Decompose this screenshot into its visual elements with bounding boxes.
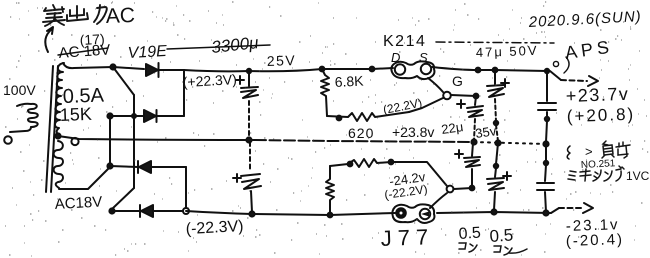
svg-text:AC18V: AC18V <box>54 194 102 213</box>
transistor Q2 J77 package <box>392 193 447 223</box>
node: row3 left junction <box>107 163 112 168</box>
svg-text:G: G <box>452 73 463 89</box>
svg-text:22μ: 22μ <box>440 119 464 137</box>
svg-text:(-22.3V): (-22.3V) <box>185 218 244 238</box>
svg-text:25V: 25V <box>267 52 297 69</box>
mark 0.) near APS <box>553 57 569 73</box>
svg-text:>: > <box>585 144 593 159</box>
wire: to J77 gate <box>391 162 447 186</box>
svg-text:0.5: 0.5 <box>489 225 514 246</box>
wire: positive output arrow <box>547 71 598 86</box>
svg-text:15K: 15K <box>59 104 92 125</box>
transformer T1 secondary upper winding <box>55 63 64 135</box>
capacitor C4 47u 50V positive <box>487 70 504 141</box>
node: 0 rail end dot <box>543 141 548 146</box>
wire: to K214 gate <box>409 98 443 112</box>
katakana mixing note <box>568 166 624 181</box>
wire: bottom tap lead <box>59 167 110 189</box>
node: gate wire dot neg <box>470 186 475 191</box>
node: K214 gate circle <box>443 92 451 100</box>
wire: -node vertical x186 <box>185 167 187 208</box>
capacitor C8 output negative <box>537 144 554 212</box>
node: row4 left junction <box>109 208 114 213</box>
node: rail dot at C5 top <box>545 69 549 73</box>
wire: diagonal top tap to x134 vertical <box>113 67 134 95</box>
diode D2 <box>144 110 157 122</box>
resistor R1 6.8K vertical <box>321 69 329 116</box>
wire: top rail from secondary to D1 <box>63 63 144 69</box>
transformer T1 secondary lower winding <box>54 141 63 188</box>
svg-text:+23.8v: +23.8v <box>392 124 434 140</box>
wire: vertical x110 row2-row3 <box>109 116 111 166</box>
primary terminal circle (0) <box>4 136 12 144</box>
wire: negative output arrow <box>551 203 593 213</box>
svg-text:APS: APS <box>564 36 614 62</box>
wire: D3 to -node <box>151 166 186 168</box>
transformer T1 primary winding <box>10 104 38 132</box>
plus sign C4 <box>501 79 509 87</box>
diode D4 <box>140 205 153 217</box>
node: 0 rail dot x474 <box>471 139 476 144</box>
svg-text:D: D <box>391 50 400 65</box>
plus sign C6 <box>455 150 463 158</box>
node: center tap junction <box>55 133 60 138</box>
svg-text:V19E: V19E <box>127 43 167 62</box>
node: row2 left junction <box>107 113 112 118</box>
wire: vertical x134 down <box>133 95 135 188</box>
svg-text:0.5: 0.5 <box>458 224 481 243</box>
capacitor C2 3300u negative <box>241 142 261 212</box>
svg-text:+23.7v: +23.7v <box>565 84 629 106</box>
annotation arrow under title <box>45 27 53 52</box>
node: 0 rail dot x498 <box>495 140 500 145</box>
wire: row3 to D3 <box>110 166 138 167</box>
wire: K214 gate to cap <box>451 95 476 96</box>
wire: top rail K214 source to output <box>432 67 547 71</box>
node: rail dot x322 <box>320 67 325 72</box>
plus sign C3 <box>457 100 465 108</box>
transformer core <box>46 66 58 192</box>
svg-text:3300μ: 3300μ <box>210 33 260 57</box>
node: C8 bottom dot <box>543 210 548 215</box>
diode D3 <box>138 161 151 173</box>
node: dot on C7 line <box>494 164 498 168</box>
node: top tap junction <box>110 64 115 69</box>
title kanji 実出力 <box>43 5 107 26</box>
svg-text:(+20.8): (+20.8) <box>566 105 635 126</box>
plus sign C1 <box>236 76 244 84</box>
svg-text:S: S <box>419 50 428 65</box>
node: dot under C5 <box>545 117 549 121</box>
svg-text:J77: J77 <box>380 224 434 251</box>
svg-text:2020.9.6(SUN): 2020.9.6(SUN) <box>527 8 642 31</box>
node: rail dot x372 <box>370 67 375 72</box>
wire: top rail +node to K214 drain <box>184 68 393 71</box>
node: C2 bottom dot <box>249 211 254 216</box>
strikethrough AC18V <box>58 48 108 55</box>
node: C7 bottom dot <box>491 209 496 214</box>
node: dot on C4 line <box>494 121 498 125</box>
wire: D1 cathode to +node corner <box>159 69 184 71</box>
node: gate wire dot <box>474 94 479 99</box>
svg-text:AC: AC <box>105 4 135 28</box>
node: dot on gate feed <box>389 160 394 165</box>
wire: row4 to D4 <box>112 210 140 212</box>
node: R3 bottom dot <box>328 213 333 218</box>
resistor R2 620 horizontal <box>327 112 409 121</box>
wire: +node vertical x184 <box>183 70 185 116</box>
plus sign C2 <box>233 174 241 182</box>
node: J77 gate circle <box>447 186 454 193</box>
svg-text:620: 620 <box>348 125 374 141</box>
katakana kon first <box>459 243 477 252</box>
capacitor C1 3300u positive <box>241 71 258 138</box>
svg-text:K214: K214 <box>383 33 426 50</box>
dotted line after K214 <box>436 42 554 43</box>
svg-text:(+22.3V): (+22.3V) <box>182 71 237 90</box>
wire: D4 to -node <box>153 210 183 212</box>
svg-text:6.8K: 6.8K <box>334 72 364 90</box>
bracket before load note <box>567 146 570 159</box>
capacitor C7 47u negative <box>487 143 504 210</box>
wire: row2 to D2 <box>110 115 144 117</box>
kanji 負荷 <box>602 141 630 158</box>
wire: J77 gate to cap <box>454 188 472 189</box>
wire: diagonal to row4 <box>112 188 134 209</box>
wire: middle 0 rail <box>58 136 546 144</box>
capacitor C6 22u gate negative <box>464 143 480 188</box>
diode D1 V19E <box>146 63 159 77</box>
katakana kon second with swoosh <box>494 246 527 255</box>
node: R3/R4 corner dot <box>348 162 353 167</box>
plus sign C7 <box>503 172 511 180</box>
node: -node circle <box>183 208 189 214</box>
capacitor C3 22u 35V gate positive <box>467 96 483 140</box>
node: rail dot x495 <box>493 68 498 73</box>
svg-text:100V: 100V <box>3 82 36 98</box>
resistor R4 620 negative horizontal <box>330 159 391 167</box>
node: rail dot x478 <box>476 68 481 73</box>
node: crossing blob x134 row2 <box>132 114 136 118</box>
svg-text:(-20.4): (-20.4) <box>566 231 625 250</box>
node: dot on C8 line <box>544 161 548 165</box>
node: R1/R2 corner dot <box>337 116 342 121</box>
wire: D2 cathode to +node <box>157 115 184 117</box>
wire: bottom rail <box>186 211 551 215</box>
transistor Q1 K214 package <box>391 61 443 92</box>
strikethrough 3300u <box>167 45 270 49</box>
resistor R3 vertical negative <box>326 166 334 215</box>
svg-text:47μ 50V: 47μ 50V <box>476 43 539 60</box>
svg-text:AC 18V: AC 18V <box>58 41 111 62</box>
svg-text:35v: 35v <box>474 123 497 141</box>
node: rail dot at C1 top <box>247 69 251 73</box>
capacitor C5 output positive <box>538 71 556 142</box>
node: C1 bottom dot <box>246 137 251 142</box>
svg-text:1VC: 1VC <box>626 169 650 183</box>
center tap circle (0) <box>71 138 78 145</box>
